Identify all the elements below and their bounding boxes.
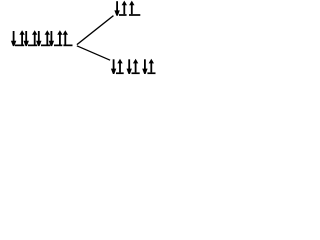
left row up-spin electron 2 <box>32 30 37 35</box>
t2g down-spin electron 3 <box>144 59 146 71</box>
eg down-spin electron <box>116 1 118 13</box>
eg orbital line 2 <box>129 14 140 16</box>
t2g orbital line 3 <box>147 72 155 74</box>
t2g orbital line 2 <box>132 72 140 74</box>
t2g up-spin electron 2 <box>133 59 138 64</box>
t2g down-spin electron 2 <box>128 59 130 71</box>
left row up-spin electron 4 <box>57 30 62 35</box>
t2g up-spin electron 1 <box>117 59 122 64</box>
eg orbital line 1 <box>119 14 127 16</box>
t2g orbital line 1 <box>116 72 124 74</box>
left row orbital line 1 <box>15 45 24 47</box>
left row up-spin electron 1 <box>19 30 24 35</box>
lower splitting connector line <box>77 45 111 60</box>
eg unpaired up-spin electron <box>129 1 134 6</box>
eg up-spin electron (paired) <box>122 1 127 6</box>
left row orbital line 5 <box>63 45 72 47</box>
left row orbital line 2 <box>28 45 37 47</box>
left row down-spin electron 4 <box>51 31 53 43</box>
t2g down-spin electron 1 <box>113 59 115 71</box>
left row orbital line 3 <box>41 45 50 47</box>
orbital energy splitting diagram (d9 ion, octahedral field), 163x78 <box>0 0 163 78</box>
t2g up-spin electron 3 <box>149 59 154 64</box>
upper splitting connector line <box>76 15 113 45</box>
left row up-spin electron 3 <box>45 30 50 35</box>
left row unpaired up-spin electron <box>63 30 68 35</box>
left row down-spin electron 2 <box>25 31 27 43</box>
left row down-spin electron 3 <box>38 31 40 43</box>
left row orbital line 4 <box>54 45 62 47</box>
left row down-spin electron 1 <box>13 31 15 43</box>
